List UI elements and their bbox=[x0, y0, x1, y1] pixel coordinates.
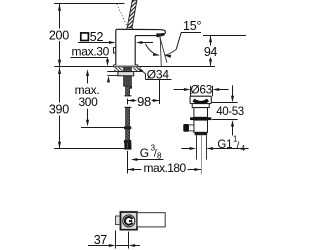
deck hatch right bbox=[133, 67, 141, 71]
pop-up waste side knob bbox=[183, 124, 188, 132]
hose break tick bottom bbox=[124, 106, 131, 108]
max.30 up arrow below nut bbox=[107, 76, 110, 83]
svg-text:8: 8 bbox=[157, 151, 162, 160]
svg-text:94: 94 bbox=[204, 45, 218, 59]
body width right arrow bbox=[141, 42, 153, 44]
supply hose lower segment bbox=[126, 107, 130, 126]
dimension max.180 line bbox=[128, 169, 202, 171]
hose break tick top bbox=[124, 95, 131, 97]
knob stem box bbox=[189, 125, 194, 131]
back notch on body bbox=[114, 48, 116, 53]
pop-up waste upper body bbox=[194, 108, 208, 118]
dimension text 98 bbox=[127, 99, 129, 105]
svg-text:G1: G1 bbox=[217, 139, 232, 151]
dimension 37 line with arrows bbox=[88, 245, 110, 247]
svg-text:300: 300 bbox=[78, 95, 98, 109]
max.300 up arrow bbox=[86, 69, 89, 76]
svg-text:37: 37 bbox=[94, 233, 108, 247]
dimension 94 top extension line bbox=[203, 35, 246, 37]
15 degree leader line bbox=[176, 33, 181, 50]
svg-text:Ø63: Ø63 bbox=[190, 82, 212, 96]
svg-text:/: / bbox=[236, 140, 239, 152]
svg-text:200: 200 bbox=[49, 28, 69, 42]
svg-text:G: G bbox=[140, 146, 149, 160]
dimension text 94 bbox=[204, 46, 218, 58]
svg-text:max.30: max.30 bbox=[72, 45, 110, 59]
max.30 down arrow to deck bbox=[107, 58, 109, 61]
dimension 98 line bbox=[128, 100, 160, 102]
max.30 leader underline bbox=[71, 57, 108, 59]
svg-text:390: 390 bbox=[49, 102, 69, 116]
faucet body and spout outline bbox=[116, 29, 166, 65]
Ø34 label underline bbox=[145, 79, 171, 81]
top view body square bbox=[120, 211, 138, 230]
pop-up waste lower body bbox=[194, 120, 208, 132]
supply hose upper segment bbox=[126, 86, 130, 96]
deck line bbox=[54, 66, 215, 68]
mounting nut stub line bbox=[107, 75, 118, 77]
dimension chain vertical line 200 bbox=[59, 4, 61, 29]
pop-up waste flange bbox=[190, 96, 211, 103]
deck section bottom line bbox=[107, 71, 141, 73]
lever raised position hatched bbox=[127, 0, 137, 28]
water stream 15 degree line bbox=[160, 37, 167, 63]
top view lever tab bbox=[116, 216, 121, 225]
pop-up waste tailpiece bbox=[196, 135, 198, 159]
max.300 down arrow bbox=[87, 109, 89, 122]
top view spout rectangle bbox=[137, 213, 165, 227]
escutcheon base plate bbox=[114, 65, 138, 67]
pop-up waste dark ring band bbox=[195, 132, 208, 135]
top view logo G glyph bbox=[125, 217, 132, 225]
dimension Ø63 arrows bbox=[174, 89, 185, 91]
dimension 37 extension lines bbox=[115, 231, 117, 249]
dimension 40-53 vertical with arrows bbox=[232, 85, 234, 97]
dimension max.180 extension lines bbox=[127, 151, 129, 174]
label square 52 symbol bbox=[81, 33, 89, 41]
pop-up waste neck bbox=[192, 104, 209, 108]
hose collar upper bbox=[124, 126, 131, 129]
hose collar lower bbox=[124, 140, 131, 143]
hose collar nub bbox=[130, 86, 132, 89]
svg-text:98: 98 bbox=[137, 94, 151, 109]
max.300 lower extension line bbox=[81, 127, 126, 129]
dimension 98 right extension line bbox=[159, 80, 161, 104]
pop-up plug lip dark arc bbox=[193, 100, 208, 103]
dimension text max.180 bbox=[142, 162, 188, 175]
tailpiece centerline bbox=[201, 135, 203, 174]
hose end nut G3/8 bbox=[124, 143, 131, 150]
angle arc left with arrowhead bbox=[145, 44, 159, 55]
dimension Ø63 extension lines bbox=[190, 86, 192, 96]
dimension 40-53 extension lines bbox=[212, 102, 238, 104]
dimension 390 bottom extension line bbox=[54, 148, 129, 150]
faucet shank threaded bbox=[124, 67, 132, 86]
dimension chain vertical line 390 bbox=[59, 67, 61, 102]
hose lower section bbox=[126, 129, 130, 140]
dimension 200 top extension line bbox=[54, 3, 125, 5]
pop-up waste rubber seal bbox=[190, 117, 211, 120]
G1 1/4 dimension line with arrows bbox=[181, 148, 191, 150]
lever pivot foot bbox=[127, 27, 133, 29]
mounting nut bbox=[118, 72, 134, 76]
lever alternate position dash-dot line bbox=[117, 4, 127, 26]
deck hatch left bbox=[114, 67, 122, 71]
15 degree underline bbox=[181, 32, 201, 34]
svg-text:15°: 15° bbox=[183, 19, 202, 33]
svg-text:52: 52 bbox=[90, 30, 104, 44]
label square52 leader line with arrow bbox=[78, 42, 112, 44]
angle arc right with arrowhead bbox=[165, 49, 176, 55]
Ø34 leader vertical bbox=[145, 74, 147, 80]
Ø34 leader arrow bbox=[141, 70, 146, 74]
top view logo outer ring bbox=[123, 215, 135, 227]
water stream vertical reference line bbox=[160, 37, 161, 66]
svg-text:max.180: max.180 bbox=[144, 161, 187, 175]
dimension 94 vertical line bbox=[210, 36, 212, 66]
G3/8 leader with arrow bbox=[136, 159, 164, 161]
aerator bbox=[156, 33, 165, 38]
svg-text:40-53: 40-53 bbox=[216, 106, 243, 118]
